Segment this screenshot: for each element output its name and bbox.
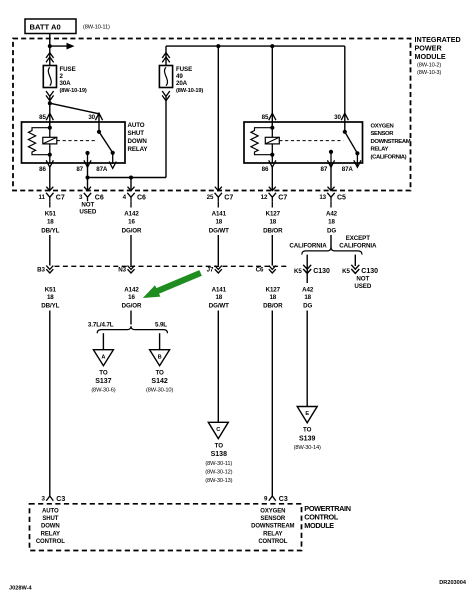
relay switch arm bbox=[99, 132, 113, 153]
wire stub A142 bbox=[130, 201, 132, 207]
relay switch pivot bbox=[97, 130, 101, 134]
svg-text:C5: C5 bbox=[337, 195, 346, 202]
wire label A141 18 DG/WT lower bbox=[209, 287, 229, 310]
svg-text:C7: C7 bbox=[56, 195, 65, 202]
wire except california branch bbox=[354, 255, 356, 266]
wire K127 down to PCM bbox=[271, 311, 273, 498]
svg-text:J028W-4: J028W-4 bbox=[9, 586, 32, 592]
pin 86 chevron bbox=[46, 160, 53, 167]
svg-text:16: 16 bbox=[128, 294, 135, 301]
svg-text:A: A bbox=[101, 354, 105, 360]
wire label K127 18 DB/OR lower bbox=[263, 287, 283, 310]
wire A42 down to splice E bbox=[306, 311, 308, 407]
wire oxy 87 down bbox=[330, 166, 332, 191]
svg-text:18: 18 bbox=[328, 218, 335, 225]
svg-text:87A: 87A bbox=[342, 166, 354, 173]
wire A142 down to brace bbox=[130, 311, 132, 325]
relay oxygen sensor downstream relay box bbox=[244, 122, 363, 163]
svg-text:B: B bbox=[158, 354, 162, 360]
svg-text:3.7L/4.7L: 3.7L/4.7L bbox=[88, 322, 114, 329]
label not used bbox=[79, 202, 96, 216]
svg-text:B3: B3 bbox=[37, 267, 45, 274]
wire fuse 49 net horizontal bbox=[88, 177, 167, 179]
wire 5.9L branch bbox=[159, 333, 161, 350]
node header to oxy 85 bbox=[270, 44, 274, 48]
connector chevrons below fuse 2 bbox=[46, 91, 54, 101]
svg-text:NOT: NOT bbox=[356, 276, 369, 283]
svg-text:DR203004: DR203004 bbox=[439, 580, 467, 586]
wire fuse 49 down to 87A net bbox=[165, 97, 167, 178]
wire oxy pin 87 stub bbox=[330, 152, 332, 166]
svg-text:MODULE: MODULE bbox=[304, 521, 334, 530]
wire oxy pin 87A stub bbox=[356, 153, 358, 166]
PCM pin chevron 3 bbox=[46, 496, 53, 501]
svg-text:CONTROL: CONTROL bbox=[258, 539, 287, 545]
svg-text:FUSE: FUSE bbox=[60, 66, 76, 73]
relay label bbox=[371, 124, 411, 161]
svg-text:SENSOR: SENSOR bbox=[371, 131, 395, 137]
wire label A42 18 DG lower bbox=[302, 287, 314, 310]
svg-text:RELAY: RELAY bbox=[371, 147, 389, 153]
svg-text:A42: A42 bbox=[302, 287, 314, 294]
splice symbol A bbox=[93, 350, 113, 366]
svg-text:C130: C130 bbox=[361, 268, 378, 275]
connector C6 cavity 3 bbox=[79, 193, 104, 202]
svg-text:CONTROL: CONTROL bbox=[304, 513, 339, 522]
svg-text:TO: TO bbox=[155, 370, 164, 377]
splice symbol B bbox=[150, 350, 170, 366]
wire arrow continuing feed to right bbox=[50, 43, 75, 50]
connector C5 cavity 13 bbox=[319, 193, 346, 202]
svg-text:MODULE: MODULE bbox=[415, 52, 446, 61]
svg-text:(8W-30-10): (8W-30-10) bbox=[146, 388, 173, 394]
svg-text:87A: 87A bbox=[96, 166, 108, 173]
connector C7 cavity 11 bbox=[38, 193, 64, 202]
svg-text:K127: K127 bbox=[266, 287, 281, 294]
svg-text:AUTO: AUTO bbox=[128, 122, 145, 129]
splice symbol C bbox=[208, 422, 228, 438]
connector C7 cavity 25 bbox=[207, 193, 234, 202]
IPM pin chevron 87 out bbox=[84, 187, 91, 191]
svg-text:USED: USED bbox=[79, 209, 96, 216]
svg-text:POWERTRAIN: POWERTRAIN bbox=[304, 504, 350, 513]
svg-text:DOWN: DOWN bbox=[41, 524, 60, 530]
svg-text:J7: J7 bbox=[207, 267, 214, 274]
svg-text:A141: A141 bbox=[212, 211, 227, 218]
wire A141 down to splice C bbox=[217, 311, 219, 423]
svg-text:S138: S138 bbox=[211, 451, 227, 458]
svg-text:K127: K127 bbox=[266, 211, 281, 218]
svg-text:A141: A141 bbox=[212, 287, 227, 294]
relay label bbox=[128, 122, 149, 153]
svg-text:C7: C7 bbox=[224, 195, 233, 202]
connector chevrons above fuse 49 bbox=[162, 53, 170, 63]
svg-text:(8W-10-3): (8W-10-3) bbox=[417, 70, 441, 76]
svg-text:DG/WT: DG/WT bbox=[209, 302, 229, 309]
svg-text:DB/YL: DB/YL bbox=[41, 302, 59, 309]
oxy relay contact 87 bbox=[329, 150, 333, 154]
inline connector row dashed line bbox=[55, 265, 289, 267]
oxy pin 87A chevron bbox=[354, 160, 361, 167]
pin 30 chevron bbox=[95, 113, 102, 120]
svg-text:C3: C3 bbox=[279, 496, 288, 503]
wire A141 column from header bbox=[217, 46, 219, 190]
svg-text:87: 87 bbox=[76, 166, 83, 173]
oxy pin 85 chevron bbox=[269, 113, 276, 120]
wire pin 87 down to connector bbox=[87, 166, 89, 191]
svg-text:S142: S142 bbox=[151, 378, 167, 385]
oxy pin 87 chevron bbox=[327, 160, 334, 167]
svg-text:30A: 30A bbox=[60, 80, 72, 87]
IPM pin chevron A142 bbox=[128, 187, 135, 191]
svg-text:(8W-10-19): (8W-10-19) bbox=[60, 88, 87, 94]
svg-text:AUTO: AUTO bbox=[42, 509, 59, 515]
oxy relay switch pivot bbox=[343, 130, 347, 134]
svg-text:NOT: NOT bbox=[81, 202, 94, 209]
svg-text:DB/OR: DB/OR bbox=[263, 227, 283, 234]
svg-text:DG: DG bbox=[327, 227, 336, 234]
svg-text:18: 18 bbox=[269, 218, 276, 225]
svg-text:TO: TO bbox=[303, 427, 312, 434]
wire K51 down to PCM bbox=[49, 311, 51, 498]
svg-text:EXCEPT: EXCEPT bbox=[346, 235, 370, 242]
oxy relay switch arm bbox=[345, 132, 358, 154]
connector chevrons below fuse 49 bbox=[162, 91, 170, 101]
oxy relay contact 87A bbox=[355, 151, 359, 155]
wire label A142 16 DG/OR lower bbox=[122, 287, 142, 310]
svg-text:DG/OR: DG/OR bbox=[122, 302, 142, 309]
svg-text:(8W-30-14): (8W-30-14) bbox=[294, 445, 321, 451]
splice label S139 bbox=[294, 427, 321, 452]
splice symbol E bbox=[297, 407, 317, 423]
IPM pin chevron A141 bbox=[215, 187, 222, 191]
pin 87A chevron bbox=[109, 162, 116, 169]
svg-text:TO: TO bbox=[215, 442, 224, 449]
splice label S138 bbox=[205, 442, 232, 484]
svg-text:(8W-10-19): (8W-10-19) bbox=[176, 88, 203, 94]
connector chevrons above fuse 2 bbox=[46, 53, 54, 63]
node junction pin 87 to fuse 49 net bbox=[86, 176, 90, 180]
svg-text:86: 86 bbox=[262, 166, 269, 173]
wire stub K127 bbox=[271, 201, 273, 207]
wire label A141 18 DG/WT bbox=[209, 211, 229, 235]
svg-text:A42: A42 bbox=[326, 211, 338, 218]
green callout arrow bbox=[143, 270, 202, 298]
node coil top dot bbox=[48, 126, 52, 130]
svg-text:SENSOR: SENSOR bbox=[260, 516, 286, 522]
wire diagonal to relay pin 30 bbox=[50, 103, 99, 114]
svg-text:DB/YL: DB/YL bbox=[41, 227, 59, 234]
inline connector N3 bbox=[118, 266, 134, 274]
svg-text:18: 18 bbox=[269, 294, 276, 301]
svg-text:C7: C7 bbox=[278, 195, 287, 202]
label except california bbox=[339, 235, 377, 250]
svg-text:SHUT: SHUT bbox=[128, 130, 145, 137]
svg-text:18: 18 bbox=[215, 218, 222, 225]
svg-text:DB/OR: DB/OR bbox=[263, 302, 283, 309]
svg-text:N3: N3 bbox=[118, 267, 126, 274]
IPM pin chevron A42 bbox=[328, 187, 335, 191]
wire label K51 18 DB/YL bbox=[41, 211, 59, 235]
wire pin 87A stub bbox=[112, 153, 114, 164]
wire A42 to brace bbox=[330, 235, 332, 249]
svg-text:49: 49 bbox=[176, 73, 183, 80]
IPM pin chevron K127 bbox=[269, 187, 276, 191]
fuse F2 value label bbox=[60, 66, 87, 94]
svg-text:25: 25 bbox=[207, 194, 214, 201]
svg-text:K51: K51 bbox=[45, 211, 57, 218]
svg-text:DOWNSTREAM: DOWNSTREAM bbox=[371, 139, 411, 145]
svg-text:C6: C6 bbox=[256, 267, 264, 274]
node oxy coil top dot bbox=[270, 126, 274, 130]
svg-text:C: C bbox=[216, 427, 220, 433]
wire A142 to splice row bbox=[130, 235, 132, 266]
wire A142 drop bbox=[130, 178, 132, 191]
svg-text:A142: A142 bbox=[124, 211, 139, 218]
wire label K51 18 DB/YL lower bbox=[41, 287, 59, 310]
svg-text:OXYGEN: OXYGEN bbox=[371, 124, 394, 130]
resistor in relay (parallel) bbox=[28, 128, 49, 155]
wire pin 87 stub bbox=[87, 153, 89, 166]
svg-text:18: 18 bbox=[47, 218, 54, 225]
svg-text:30: 30 bbox=[88, 114, 95, 121]
svg-text:C3: C3 bbox=[56, 496, 65, 503]
label not used except california bbox=[354, 276, 371, 290]
wire fuse 2 to relay pin 85 bbox=[49, 97, 51, 128]
svg-text:BATT A0: BATT A0 bbox=[30, 23, 61, 32]
wire pin 86 down to connector bbox=[49, 166, 51, 191]
svg-text:(8W-30-6): (8W-30-6) bbox=[91, 388, 115, 394]
svg-text:85: 85 bbox=[39, 114, 46, 121]
integrated power module dashed border bbox=[13, 39, 411, 191]
wire BATT A0 down to fuse 2 bbox=[49, 34, 51, 66]
oxy pin 86 chevron bbox=[269, 160, 276, 167]
pin 85 chevron bbox=[46, 113, 53, 120]
relay coil symbol bbox=[43, 137, 57, 144]
fuse F49 value label bbox=[176, 66, 203, 94]
svg-text:5.9L: 5.9L bbox=[155, 322, 167, 329]
node junction A142 bbox=[129, 176, 133, 180]
svg-text:RELAY: RELAY bbox=[41, 531, 60, 537]
battery feed box BATT A0 bbox=[25, 19, 76, 34]
oxy relay coil wire bbox=[271, 122, 273, 163]
splice label S142 bbox=[146, 370, 173, 394]
svg-text:87: 87 bbox=[321, 166, 328, 173]
pin 87 chevron bbox=[84, 160, 91, 167]
svg-text:(8W-30-11): (8W-30-11) bbox=[205, 461, 232, 467]
svg-text:CONTROL: CONTROL bbox=[36, 539, 65, 545]
svg-text:12: 12 bbox=[261, 194, 268, 201]
fuse F2 bbox=[43, 66, 56, 88]
oxy pin 30 chevron bbox=[341, 113, 348, 120]
wire header down to fuse 49 bbox=[165, 46, 167, 65]
svg-text:RELAY: RELAY bbox=[263, 531, 282, 537]
svg-text:16: 16 bbox=[128, 218, 135, 225]
svg-text:DOWN: DOWN bbox=[128, 138, 148, 145]
fuse F49 bbox=[159, 66, 172, 88]
powertrain control module label bbox=[304, 504, 350, 530]
svg-text:(8W-10-11): (8W-10-11) bbox=[83, 24, 110, 30]
wire label A42 18 DG bbox=[326, 211, 338, 235]
wire label K127 18 DB/OR bbox=[263, 211, 283, 235]
brace A42 split bbox=[302, 247, 362, 254]
wire A141 to splice row bbox=[217, 235, 219, 266]
node oxy coil bottom dot bbox=[270, 153, 274, 157]
svg-text:18: 18 bbox=[47, 294, 54, 301]
node split dot to pin 30 bbox=[48, 101, 52, 105]
svg-text:K51: K51 bbox=[45, 287, 57, 294]
svg-text:18: 18 bbox=[215, 294, 222, 301]
relay contact 87A bbox=[111, 151, 115, 155]
svg-text:(8W-10-2): (8W-10-2) bbox=[417, 63, 441, 69]
node coil bottom dot bbox=[48, 153, 52, 157]
wire K51 to splice row bbox=[49, 235, 51, 266]
svg-text:C6: C6 bbox=[137, 195, 146, 202]
svg-text:SHUT: SHUT bbox=[42, 516, 58, 522]
connector C6 cavity 4 bbox=[123, 193, 146, 202]
svg-text:20A: 20A bbox=[176, 80, 188, 87]
brace A142 engine split bbox=[97, 326, 167, 333]
PCM pin chevron 9 bbox=[269, 496, 276, 501]
svg-text:E: E bbox=[305, 411, 309, 417]
svg-text:18: 18 bbox=[304, 294, 311, 301]
relay contact 87 bbox=[85, 151, 89, 155]
node junction dot on batt feed bbox=[48, 44, 52, 48]
powertrain control module dashed box bbox=[30, 504, 302, 551]
svg-text:K5: K5 bbox=[342, 268, 350, 275]
svg-text:(8W-30-12): (8W-30-12) bbox=[205, 469, 232, 475]
svg-text:86: 86 bbox=[39, 166, 46, 173]
oxy relay actuator dashed link bbox=[279, 140, 343, 142]
svg-text:DG: DG bbox=[303, 302, 312, 309]
svg-text:DG/OR: DG/OR bbox=[122, 227, 142, 234]
inline connector B3 bbox=[37, 266, 53, 274]
relay K1 auto shut down relay box bbox=[22, 122, 126, 163]
inline connector C130 california bbox=[294, 265, 330, 275]
relay coil wire bbox=[49, 122, 51, 163]
splice label S137 bbox=[91, 370, 115, 394]
inline connector C6 bbox=[256, 266, 276, 274]
svg-text:USED: USED bbox=[354, 283, 371, 290]
svg-text:CALIFORNIA: CALIFORNIA bbox=[289, 243, 327, 250]
integrated power module label bbox=[415, 35, 461, 76]
wire K127 to splice row bbox=[271, 235, 273, 266]
svg-text:CALIFORNIA: CALIFORNIA bbox=[339, 243, 377, 250]
oxy relay coil symbol bbox=[265, 137, 279, 144]
wire header down to oxy relay pin 30 bbox=[344, 46, 346, 132]
wire stub A141 bbox=[217, 201, 219, 207]
wire fused b+ header bbox=[166, 45, 345, 47]
svg-text:K5: K5 bbox=[294, 268, 302, 275]
svg-text:DG/WT: DG/WT bbox=[209, 227, 229, 234]
svg-text:RELAY: RELAY bbox=[128, 146, 149, 153]
wire oxy 86 down bbox=[271, 166, 273, 191]
svg-text:S137: S137 bbox=[95, 378, 111, 385]
svg-text:OXYGEN: OXYGEN bbox=[260, 509, 285, 515]
oxy resistor in relay bbox=[251, 128, 272, 155]
wire california branch bbox=[306, 255, 308, 283]
inline connector C130 except california bbox=[342, 265, 378, 275]
svg-text:DOWNSTREAM: DOWNSTREAM bbox=[251, 524, 294, 530]
wire header down to oxy relay pin 85 bbox=[271, 46, 273, 128]
svg-text:C130: C130 bbox=[313, 268, 330, 275]
label oxygen sensor downstream relay control bbox=[251, 509, 294, 545]
svg-text:(CALIFORNIA): (CALIFORNIA) bbox=[371, 154, 407, 160]
svg-text:85: 85 bbox=[262, 114, 269, 121]
connector C7 cavity 12 bbox=[261, 193, 288, 202]
svg-text:30: 30 bbox=[334, 114, 341, 121]
wire stub A42 bbox=[330, 201, 332, 207]
wire label A142 16 DG/OR bbox=[122, 211, 142, 235]
svg-text:(8W-30-13): (8W-30-13) bbox=[205, 478, 232, 484]
svg-text:S139: S139 bbox=[299, 435, 315, 442]
IPM pin chevron K51 bbox=[46, 187, 53, 191]
wire stub K51 bbox=[49, 201, 51, 207]
svg-text:13: 13 bbox=[319, 194, 326, 201]
svg-text:A142: A142 bbox=[124, 287, 139, 294]
svg-text:C6: C6 bbox=[95, 195, 104, 202]
svg-text:FUSE: FUSE bbox=[176, 66, 192, 73]
svg-text:TO: TO bbox=[99, 370, 108, 377]
node header to A141 bbox=[216, 44, 220, 48]
label auto shut down relay control bbox=[36, 509, 65, 545]
svg-text:11: 11 bbox=[38, 194, 45, 201]
relay actuator dashed link bbox=[57, 140, 98, 142]
inline connector J7 bbox=[207, 266, 222, 274]
wire 3.7L branch bbox=[102, 333, 104, 350]
